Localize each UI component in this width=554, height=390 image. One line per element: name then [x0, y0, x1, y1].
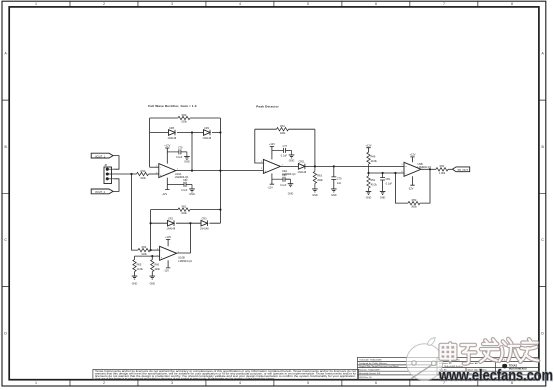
ground C79 [331, 189, 337, 192]
svg-text:SVN Rev: 26: SVN Rev: 26 [359, 377, 372, 379]
node junction at R9A tap [130, 173, 132, 175]
capacitor C79 [331, 166, 336, 189]
capacitor C82 [184, 182, 192, 187]
zone numbers bottom [35, 381, 513, 385]
svg-text:GND: GND [150, 282, 156, 285]
svg-text:0.1uF: 0.1uF [176, 156, 183, 159]
svg-text:5: 5 [307, 2, 309, 6]
svg-text:0.1uF: 0.1uF [281, 155, 288, 158]
svg-text:2: 2 [103, 381, 105, 385]
svg-text:1N4148: 1N4148 [203, 137, 212, 140]
svg-text:C80: C80 [282, 174, 287, 177]
svg-text:C82: C82 [183, 179, 188, 182]
svg-text:1N4148: 1N4148 [298, 171, 307, 174]
wire feedback to output [420, 169, 430, 203]
diode CR9 [204, 130, 211, 136]
svg-text:R62: R62 [182, 205, 187, 209]
resistor R64 [138, 248, 150, 251]
-12V supply U9B [410, 176, 414, 185]
svg-text:1uF: 1uF [337, 181, 342, 185]
capacitor C80 [283, 177, 291, 182]
svg-text:Orderable: TIDA-00489: Orderable: TIDA-00489 [359, 358, 382, 361]
resistor R49 vertical [367, 152, 370, 173]
svg-text:R49: R49 [371, 155, 376, 159]
svg-text:7: 7 [443, 2, 445, 6]
wire flag2 to J8 pin3 [113, 179, 119, 192]
svg-text:2: 2 [156, 165, 157, 167]
svg-text:-12V: -12V [164, 269, 170, 273]
op-amp U9B [404, 162, 421, 176]
wire right bus vertical [219, 118, 221, 223]
svg-text:-12V: -12V [162, 192, 168, 196]
svg-text:GND: GND [366, 197, 372, 200]
wire U9A feedback left vertical [255, 129, 264, 163]
svg-text:1.00k: 1.00k [439, 171, 446, 175]
wire feedback row lower [151, 209, 221, 211]
svg-text:A: A [541, 52, 544, 56]
svg-text:7: 7 [178, 251, 179, 253]
wire R52 to output flag [448, 168, 453, 170]
zone ticks bottom band [70, 380, 478, 386]
svg-text:GND: GND [288, 193, 294, 196]
connector J8 [104, 167, 114, 184]
resistor R62 [178, 208, 190, 211]
svg-text:CR11: CR11 [298, 161, 305, 164]
node diode mid junction upper [191, 131, 193, 133]
zone ticks left band [2, 100, 9, 286]
wire input long vertical from J8 [132, 174, 139, 250]
svg-text:-12V: -12V [267, 186, 273, 190]
wire diode junction down to output [191, 133, 193, 171]
svg-text:4: 4 [239, 2, 241, 6]
wire bypass branch top [167, 151, 179, 153]
resistor R50 [408, 201, 420, 204]
svg-text:-12V: -12V [408, 187, 414, 191]
resistor R61 [277, 127, 289, 130]
svg-text:10.0k: 10.0k [137, 267, 144, 271]
svg-text:C81: C81 [386, 177, 391, 181]
svg-text:C: C [541, 238, 544, 242]
title block text [359, 358, 508, 379]
svg-text:1: 1 [35, 381, 37, 385]
node feedback tap [394, 172, 396, 174]
net flag VOUT_1 [91, 153, 113, 158]
resistor R66 [151, 260, 154, 272]
svg-text:R61: R61 [280, 124, 285, 128]
+12V supply divider [366, 148, 370, 153]
svg-text:1: 1 [35, 2, 37, 6]
diode CR11 [298, 164, 305, 170]
node C79 tap [333, 165, 335, 167]
svg-text:Designed for: Public Release: Designed for: Public Release [359, 363, 387, 365]
svg-text:6: 6 [157, 248, 158, 250]
wire J8 pin2 to R9A [114, 173, 137, 175]
diode CR8 [169, 130, 176, 136]
svg-text:365k: 365k [411, 205, 417, 209]
svg-text:R60: R60 [182, 113, 187, 117]
wire flag1 to J8 pin1 [113, 156, 119, 170]
svg-text:Full Wave Rectifier, Gain = 1.: Full Wave Rectifier, Gain = 1.0 [148, 104, 197, 108]
svg-text:3: 3 [261, 168, 262, 170]
svg-text:200k: 200k [317, 178, 323, 182]
zone ticks right band [539, 100, 546, 286]
wire stage1 output to U9A +in [220, 170, 263, 172]
svg-text:100k: 100k [181, 211, 187, 215]
svg-text:100k: 100k [181, 120, 187, 124]
resistor R60 [178, 116, 190, 119]
wire U9B output [421, 168, 436, 170]
wire divider row [369, 172, 405, 174]
net flag PK_OUT [453, 167, 470, 172]
svg-text:6: 6 [402, 171, 403, 173]
svg-text:40.2k: 40.2k [371, 183, 378, 187]
svg-text:LM2904-Q1: LM2904-Q1 [178, 259, 192, 263]
capacitor C76 [179, 149, 187, 154]
wire feedback top row U9A [255, 128, 315, 130]
svg-text:8: 8 [511, 2, 513, 6]
svg-text:GND: GND [380, 197, 386, 200]
svg-text:0.1uF: 0.1uF [280, 184, 287, 187]
svg-text:R50: R50 [412, 198, 417, 202]
wire R64 to U10B -in [151, 249, 160, 251]
zone letters right [541, 52, 544, 336]
resistor R63 vertical [313, 166, 316, 189]
-12V supply U9A [270, 173, 274, 184]
svg-text:PK_OUT: PK_OUT [458, 168, 469, 172]
svg-text:R9A: R9A [141, 169, 146, 173]
wire U10B output up to diode junction [177, 223, 191, 253]
svg-text:0.1uF: 0.1uF [386, 182, 393, 186]
capacitor C81 [380, 173, 385, 191]
svg-text:2: 2 [103, 2, 105, 6]
resistor R51 vertical [367, 173, 370, 191]
op-amp U10A [159, 164, 176, 178]
svg-text:1N4148: 1N4148 [167, 228, 176, 231]
svg-text:+: + [405, 165, 407, 168]
svg-text:1N4148: 1N4148 [168, 137, 177, 140]
svg-text:Assembly Variant: 001: Assembly Variant: 001 [359, 372, 381, 375]
ground R65 [132, 276, 138, 279]
svg-text:+12V: +12V [409, 153, 415, 157]
svg-text:CR8: CR8 [169, 127, 175, 130]
wire U10A output row [176, 170, 221, 172]
svg-text:R63: R63 [317, 173, 322, 177]
wire bypass branch U9A top [272, 149, 284, 151]
svg-text:R52: R52 [440, 164, 445, 168]
svg-text:3: 3 [156, 172, 157, 174]
-12V supply U10A [165, 178, 169, 190]
wire feedback down vertical U9B [395, 173, 408, 203]
resistor R9A [137, 172, 149, 175]
svg-text:R64: R64 [142, 245, 147, 249]
resistor R65 [133, 260, 136, 272]
svg-text:R65: R65 [137, 262, 142, 266]
wire feedback vertical U9A [314, 129, 316, 166]
svg-text:-: - [160, 166, 161, 169]
svg-text:GND: GND [184, 161, 190, 164]
op-amp U9A [263, 159, 280, 173]
svg-text:+12V: +12V [269, 142, 275, 146]
ground bypass top U10A [186, 152, 188, 157]
svg-text:CR9: CR9 [204, 127, 210, 130]
svg-text:0.1uF: 0.1uF [181, 189, 188, 192]
wire bypass branch U9A bottom [272, 178, 283, 180]
svg-text:+12V: +12V [365, 143, 371, 147]
wire after diode row [305, 165, 404, 167]
section title: Full Wave Rectifier [148, 104, 279, 108]
op-amp U10B [160, 246, 177, 260]
svg-text:+12V: +12V [164, 144, 170, 148]
watermark chinese characters [441, 339, 539, 364]
svg-text:D: D [541, 331, 544, 335]
svg-text:J8: J8 [104, 163, 107, 167]
svg-text:www.elecfans.com: www.elecfans.com [438, 367, 553, 384]
svg-text:3: 3 [171, 381, 173, 385]
+12V supply U10A [165, 148, 169, 164]
disclaimer text [95, 370, 357, 380]
svg-text:C: C [4, 238, 7, 242]
svg-text:B: B [4, 145, 7, 149]
ground bypass bottom U10A [191, 184, 193, 189]
svg-text:VOUT_2: VOUT_2 [95, 190, 106, 194]
wire bypass branch bottom [167, 183, 184, 185]
svg-text:C79: C79 [337, 176, 342, 180]
elecfans watermark logo circle [406, 338, 443, 381]
wire feedback top row U10A [150, 117, 221, 119]
svg-text:D: D [4, 331, 7, 335]
wire U9A output to diode [280, 165, 298, 167]
svg-text:2: 2 [261, 161, 262, 163]
zone ticks top band [70, 1, 478, 7]
+12V supply U9B [410, 157, 414, 162]
node R66 tap [151, 255, 153, 257]
svg-text:CR3: CR3 [202, 218, 208, 221]
title block [358, 357, 539, 379]
ground bypass U9A top [291, 150, 293, 155]
svg-text:GND: GND [189, 193, 195, 196]
svg-text:Your use of this design is at: Your use of this design is at your own r… [95, 377, 275, 380]
svg-text:CR2: CR2 [168, 218, 174, 221]
wire diode row lower [151, 222, 221, 224]
svg-text:100k: 100k [154, 267, 160, 271]
svg-text:GND: GND [312, 194, 318, 197]
diode CR3 [201, 220, 208, 226]
zone numbers top [35, 2, 513, 6]
+12V supply U9A [270, 146, 274, 159]
svg-text:100k: 100k [141, 252, 147, 256]
wire U10A -in from feedback vertical [150, 166, 159, 168]
svg-text:R66: R66 [154, 262, 159, 266]
svg-text:5: 5 [157, 255, 158, 257]
svg-text:49.9k: 49.9k [371, 159, 378, 163]
zone letters left [4, 52, 7, 336]
-12V supply U10B [166, 260, 170, 268]
ground bypass U9A bottom [290, 179, 292, 184]
net flag VOUT_2 [91, 189, 113, 194]
disclaimer box [93, 369, 359, 379]
svg-text:R51: R51 [371, 178, 376, 182]
wire diode row upper [150, 132, 221, 134]
+12V supply U10B [166, 239, 170, 246]
ground R66 [150, 276, 156, 279]
wire feedback left vertical U10A [149, 118, 151, 167]
svg-text:-: - [161, 249, 162, 252]
svg-text:-: - [265, 162, 266, 165]
svg-text:A: A [4, 52, 7, 56]
svg-text:B: B [541, 145, 544, 149]
svg-text:100k: 100k [280, 131, 286, 135]
svg-text:GND: GND [289, 159, 295, 162]
diode CR2 [168, 220, 175, 226]
svg-text:3: 3 [171, 2, 173, 6]
svg-text:6: 6 [375, 381, 377, 385]
svg-text:4: 4 [239, 381, 241, 385]
ground R51 [366, 191, 372, 194]
svg-text:Number: TIDA-00489: Number: TIDA-00489 [359, 369, 380, 372]
ground C81 [380, 191, 386, 194]
svg-text:5: 5 [307, 381, 309, 385]
svg-text:+12V: +12V [165, 235, 171, 239]
wire left vertical lower section [150, 210, 152, 251]
svg-text:-: - [405, 173, 406, 176]
svg-text:100k: 100k [140, 176, 146, 180]
wire U10B +in row [135, 255, 160, 257]
svg-text:VOUT_1: VOUT_1 [95, 154, 106, 158]
Texas Instruments logo [502, 364, 507, 368]
svg-text:GND: GND [331, 194, 337, 197]
svg-text:1N4148: 1N4148 [200, 228, 209, 231]
ground R63 [312, 189, 318, 192]
svg-text:6: 6 [375, 2, 377, 6]
svg-text:C76: C76 [178, 146, 183, 149]
svg-text:Project Title: Sound Pressure: Project Title: Sound Pressure Level Mete… [359, 365, 399, 368]
node C81 tap [382, 172, 384, 174]
node diode mid junction lower [189, 222, 191, 224]
svg-text:Peak Detector: Peak Detector [256, 105, 279, 109]
svg-text:GND: GND [132, 282, 138, 285]
svg-text:5: 5 [402, 164, 403, 166]
svg-text:C77: C77 [283, 145, 288, 148]
capacitor C77 [284, 148, 292, 153]
resistor R52 [436, 168, 448, 171]
wire R9A to U10A +in [149, 173, 159, 175]
